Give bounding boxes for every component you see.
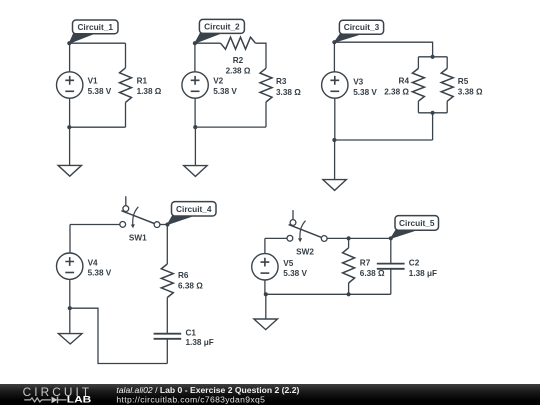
node circuit 1 ground junction [67, 125, 71, 129]
callout label Circuit_1 [69, 20, 118, 43]
ground circuit 1 [58, 165, 81, 176]
wire C2 top lead [390, 238, 392, 263]
svg-text:R1: R1 [137, 76, 148, 85]
wire ground stem circuit 4 [69, 308, 71, 333]
wire V5 to SW2 top rail [265, 237, 287, 239]
callout label Circuit_5 [391, 216, 439, 239]
svg-text:5.38 V: 5.38 V [283, 269, 307, 278]
svg-text:2.38 Ω: 2.38 Ω [384, 87, 409, 96]
resistor R5 [441, 68, 453, 101]
voltage source V2 [182, 72, 208, 98]
wire V4 top lead [69, 225, 71, 253]
node parallel bottom junction [431, 111, 435, 115]
wire ground stem circuit 1 [69, 127, 71, 165]
node Circuit_2 top-left junction [193, 41, 197, 45]
wire R1 top lead [125, 43, 127, 68]
svg-text:1.38 μF: 1.38 μF [409, 269, 437, 278]
wire V2 top lead [194, 43, 196, 72]
node R7 top junction [347, 236, 351, 240]
wire V4 to SW1 top rail [70, 224, 120, 226]
node circuit 5 ground junction [264, 292, 268, 296]
wire top rail circuit 1 [69, 42, 125, 44]
node Circuit_3 top-left junction [332, 40, 336, 44]
node circuit 3 ground junction [332, 138, 336, 142]
wire parallel top rail [418, 56, 447, 58]
svg-text:Circuit_1: Circuit_1 [77, 22, 113, 32]
wire R2 to R3 corner [256, 43, 267, 68]
resistor R2 [221, 37, 256, 49]
callout label Circuit_4 [168, 202, 217, 225]
wire bottom rail circuit 3 [334, 139, 432, 141]
svg-text:V2: V2 [213, 76, 223, 85]
capacitor C2 [377, 264, 405, 269]
wire V1 bottom lead [69, 98, 71, 127]
wire parallel to bottom rail [432, 113, 434, 140]
wire R4 bottom lead [417, 101, 419, 113]
svg-text:Circuit_4: Circuit_4 [176, 204, 212, 214]
svg-text:V4: V4 [88, 258, 98, 267]
svg-text:R2: R2 [233, 56, 244, 65]
node Circuit_4 junction [165, 222, 169, 226]
svg-text:3.38 Ω: 3.38 Ω [458, 88, 483, 97]
node parallel top junction [431, 55, 435, 59]
voltage source V1 [56, 72, 82, 98]
svg-text:1.38 Ω: 1.38 Ω [137, 87, 162, 96]
voltage source V4 [56, 253, 82, 279]
resistor R7 [343, 248, 355, 283]
svg-text:SW1: SW1 [129, 233, 147, 242]
svg-text:C1: C1 [186, 328, 197, 337]
svg-text:5.38 V: 5.38 V [88, 87, 112, 96]
node Circuit_1 top-left junction [67, 41, 71, 45]
wire R7 bottom lead [348, 283, 350, 294]
wire SW1 to node [160, 224, 168, 226]
wire ground stem circuit 2 [194, 127, 196, 165]
wire V5 bottom lead [264, 280, 266, 294]
callout label Circuit_3 [334, 20, 383, 42]
wire C2 bottom lead [390, 269, 392, 295]
ground circuit 2 [184, 166, 207, 177]
voltage source V5 [252, 254, 278, 280]
svg-text:6.38 Ω: 6.38 Ω [360, 269, 385, 278]
wire V2 bottom lead [194, 98, 196, 127]
wire bottom rail circuit 2 [195, 126, 266, 128]
logo wire with resistor and diode [24, 397, 66, 404]
node R7 bottom junction [347, 292, 351, 296]
wire R3 bottom lead [265, 102, 267, 127]
node Circuit_5 junction [389, 236, 393, 240]
wire bottom rail circuit 1 [69, 126, 125, 128]
wire C1 bottom lead [166, 339, 168, 364]
svg-text:6.38 Ω: 6.38 Ω [178, 282, 203, 291]
wire parallel bottom rail [418, 112, 447, 114]
wire R4 top lead [417, 57, 419, 69]
wire R6 to C1 lead [166, 298, 168, 334]
svg-text:R4: R4 [399, 76, 410, 85]
svg-text:R3: R3 [276, 77, 287, 86]
capacitor C1 [154, 334, 182, 339]
wire R1 bottom lead [125, 102, 127, 127]
svg-text:SW2: SW2 [296, 247, 314, 256]
svg-text:http://circuitlab.com/c7683yda: http://circuitlab.com/c7683ydan9xq5 [116, 395, 265, 405]
svg-text:V5: V5 [283, 259, 293, 268]
wire R5 bottom lead [446, 101, 448, 113]
ground circuit 5 [254, 319, 278, 330]
node circuit 4 ground junction [68, 306, 72, 310]
wire V1 top lead [69, 43, 71, 72]
svg-text:3.38 Ω: 3.38 Ω [276, 88, 301, 97]
resistor R3 [260, 68, 272, 102]
svg-text:C2: C2 [409, 258, 420, 267]
svg-text:5.38 V: 5.38 V [353, 88, 377, 97]
svg-text:Circuit_2: Circuit_2 [204, 21, 240, 31]
resistor R1 [120, 68, 132, 103]
svg-text:Circuit_5: Circuit_5 [399, 218, 435, 228]
wire ground stem circuit 5 [265, 294, 267, 319]
svg-text:LAB: LAB [67, 395, 92, 405]
svg-text:1.38 μF: 1.38 μF [186, 338, 214, 347]
svg-text:5.38 V: 5.38 V [88, 269, 112, 278]
callout label Circuit_2 [195, 19, 245, 43]
wire top rail circuit 3 [334, 42, 432, 57]
ground circuit 4 [58, 334, 82, 344]
voltage source V3 [322, 72, 348, 98]
wire bottom rail circuit 5 [266, 293, 391, 295]
ground circuit 3 [323, 180, 346, 191]
wire V4 bottom lead [69, 280, 71, 309]
svg-text:2.38 Ω: 2.38 Ω [226, 67, 251, 76]
wire R7 top lead [348, 238, 350, 248]
switch SW1 [120, 196, 160, 228]
wire V5 top lead [264, 238, 266, 253]
switch SW2 [287, 210, 327, 242]
svg-text:5.38 V: 5.38 V [213, 87, 237, 96]
svg-text:R6: R6 [178, 271, 189, 280]
svg-text:R7: R7 [360, 258, 371, 267]
wire R6 top lead [166, 225, 168, 265]
wire V3 top lead [333, 42, 335, 72]
wire V2 to R2 segment [195, 42, 221, 44]
node circuit 2 ground junction [193, 125, 197, 129]
wire R5 top lead [446, 57, 448, 69]
svg-text:R5: R5 [458, 77, 469, 86]
wire V3 bottom lead [334, 98, 336, 140]
svg-text:V3: V3 [353, 77, 363, 86]
wire bottom return circuit 4 [70, 308, 168, 363]
resistor R4 [412, 68, 424, 101]
wire ground stem circuit 3 [334, 140, 336, 180]
svg-text:V1: V1 [88, 76, 98, 85]
svg-text:Circuit_3: Circuit_3 [344, 22, 380, 32]
resistor R6 [161, 264, 173, 298]
wire SW2 to R7 and C2 rail [327, 237, 391, 239]
